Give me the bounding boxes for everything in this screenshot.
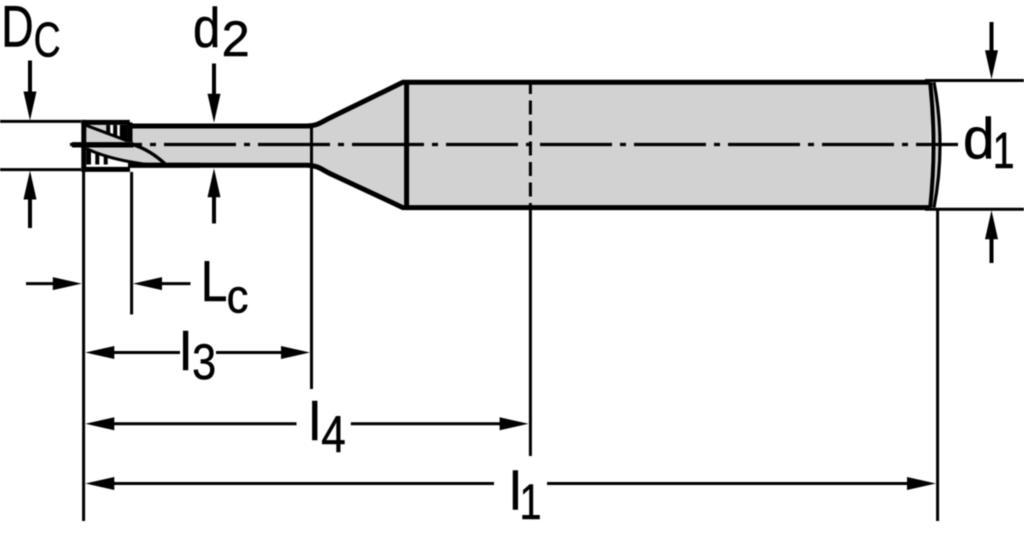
body outline top: neck, taper, shank (128, 82, 930, 126)
svg-text:L: L (201, 250, 228, 314)
head right edge upper part (127, 122, 132, 142)
d1 top extension line (925, 79, 1024, 82)
DC up arrow (24, 171, 37, 229)
head left edge (81, 120, 86, 172)
thick center band across head (72, 142, 134, 147)
DC down arrow (24, 61, 37, 121)
Lc right extension line (130, 172, 133, 315)
svg-text:1: 1 (520, 474, 542, 530)
l1 label (509, 462, 541, 531)
svg-text:C: C (34, 14, 61, 68)
svg-text:2: 2 (222, 11, 250, 67)
l3 label (180, 322, 217, 390)
centerline dash-dot (70, 143, 958, 146)
l1 right extension line (936, 209, 939, 521)
flute helix curve (133, 145, 167, 166)
svg-text:l: l (180, 322, 192, 382)
head top edge (81, 120, 130, 125)
head fill (84, 122, 130, 169)
left main extension line (82, 172, 85, 521)
body outline bottom: neck, taper, shank (128, 165, 930, 207)
svg-text:d: d (963, 107, 995, 171)
svg-text:c: c (227, 271, 249, 324)
lower flute diagonal edge (86, 149, 150, 165)
svg-text:4: 4 (321, 406, 346, 464)
head bottom edge (81, 167, 130, 172)
dashed section line in shank (529, 80, 532, 208)
l4 dimension line (85, 417, 528, 430)
d1 label (963, 107, 1015, 179)
DC top extension line (0, 120, 81, 123)
DC label (1, 0, 60, 68)
svg-text:3: 3 (192, 334, 216, 390)
svg-text:l: l (309, 392, 321, 452)
cone-cylinder boundary thick vertical (404, 80, 409, 210)
d2 label (193, 0, 250, 67)
l1 dimension line (85, 477, 936, 490)
d2 down arrow (208, 64, 221, 123)
upper flute hatch: white slits and black bars (106, 122, 132, 143)
shank end cap (930, 82, 940, 207)
l4 right extension line solid part (529, 208, 532, 456)
l3 right extension line (310, 124, 313, 389)
DC bottom extension line (0, 168, 81, 171)
svg-text:d: d (193, 0, 220, 59)
Lc dimension right arrow (pointing left) (133, 277, 191, 290)
lower flute hatch bars (86, 150, 107, 165)
body fill: neck + taper + shank (128, 82, 931, 207)
svg-text:1: 1 (993, 122, 1015, 179)
d1 down arrow (985, 22, 998, 79)
d1 bottom extension line (925, 208, 1024, 211)
d2 up arrow (208, 168, 221, 223)
Lc label (201, 250, 249, 324)
upper flute face (86, 125, 127, 141)
Lc dimension left arrow (pointing right) (26, 277, 82, 290)
neck bottom edge re-stroke over flute (128, 163, 200, 168)
svg-text:D: D (1, 0, 33, 59)
l4 label (309, 392, 346, 464)
lower flute white face (86, 149, 150, 168)
upper flute diagonal cutting edge (86, 125, 127, 141)
l3 dimension line (85, 346, 310, 359)
d1 up arrow (985, 210, 998, 263)
